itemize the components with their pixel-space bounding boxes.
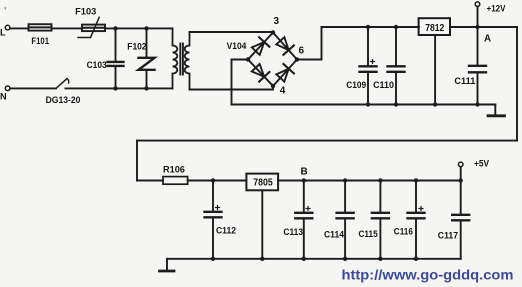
svg-text:V104: V104	[227, 41, 247, 52]
svg-text:R106: R106	[163, 165, 185, 175]
wire feed left vertical	[136, 141, 138, 181]
node junction C112 top	[211, 178, 215, 182]
svg-text:C116: C116	[394, 226, 413, 236]
capacitor C116	[408, 181, 425, 259]
node junction 7805 gnd bottom	[260, 257, 264, 261]
svg-text:C103: C103	[87, 60, 107, 70]
bridge left node dot	[246, 57, 250, 61]
wire 7805 output rail	[278, 180, 461, 182]
svg-text:C115: C115	[359, 229, 378, 239]
wire to R106	[137, 180, 163, 182]
ground stage2	[160, 259, 175, 271]
svg-text:C111: C111	[454, 76, 475, 86]
wire F101 to F103	[52, 27, 83, 29]
wire +12V feed to second stage	[137, 140, 517, 142]
diode D-topright of V104	[275, 36, 294, 55]
diode D-bottomright of V104	[275, 64, 294, 83]
node junction C111 bottom	[475, 102, 479, 106]
node junction C114 bottom	[343, 257, 347, 261]
svg-text:3: 3	[274, 16, 280, 27]
7812 ground pin wire	[434, 35, 436, 105]
wire 7812 output to +12V node	[450, 26, 517, 28]
regulator U1 7812	[419, 18, 450, 35]
regulator U2 7805	[246, 174, 278, 191]
node junction C110 top	[394, 25, 398, 29]
svg-text:C113: C113	[283, 227, 303, 237]
capacitor C110	[388, 27, 405, 105]
terminal L	[5, 25, 10, 30]
svg-text:N: N	[0, 92, 7, 102]
node junction C109 bottom	[366, 102, 370, 106]
capacitor C109	[360, 27, 377, 105]
node junction C103 top	[113, 26, 117, 30]
wire stage2 bottom rail	[167, 258, 461, 260]
wire DC top rail to 7812 input	[322, 26, 420, 28]
wire secondary top to bridge node 3	[190, 31, 274, 33]
transformer T1 secondary winding	[185, 32, 190, 90]
wire DC bottom rail	[232, 104, 496, 106]
wire switch to transformer primary bottom	[66, 87, 173, 89]
thermal fuse F103	[78, 17, 105, 37]
wire N to switch	[11, 87, 57, 89]
node junction C112 bottom	[211, 257, 215, 261]
svg-text:DG13-20: DG13-20	[46, 95, 81, 105]
node junction C113 top	[302, 178, 306, 182]
svg-text:A: A	[484, 33, 491, 44]
svg-text:7812: 7812	[425, 22, 444, 34]
terminal +5V	[458, 162, 463, 167]
svg-text:B: B	[301, 167, 308, 178]
svg-text:C117: C117	[438, 231, 458, 241]
wire node 6 to DC top rail	[297, 27, 322, 60]
svg-text:F101: F101	[31, 36, 49, 46]
node junction C109 top	[366, 25, 370, 29]
transformer T1 primary winding	[173, 28, 178, 88]
node junction F102 top	[144, 26, 148, 30]
svg-text:F103: F103	[75, 6, 96, 16]
node 4 dot	[271, 84, 275, 88]
node junction 7812 gnd	[433, 102, 437, 106]
capacitor C111	[469, 27, 486, 105]
node junction C116 top	[414, 178, 418, 182]
svg-text:http://www.go-gddq.com: http://www.go-gddq.com	[342, 267, 514, 282]
capacitor C117	[452, 181, 469, 259]
svg-text:+12V: +12V	[487, 4, 506, 15]
varistor F102	[139, 28, 155, 88]
wire L to F101	[11, 27, 29, 29]
svg-text:7805: 7805	[253, 177, 273, 189]
node junction C115 bottom	[378, 257, 382, 261]
svg-text:C114: C114	[324, 230, 345, 240]
svg-text:4: 4	[280, 86, 286, 97]
capacitor C113	[295, 181, 312, 259]
capacitor C103	[108, 28, 124, 88]
node 6 dot	[295, 57, 299, 61]
node junction C115 top	[378, 178, 382, 182]
wire +5V terminal stub	[460, 167, 462, 181]
wire +12V feed right vertical	[516, 27, 518, 141]
ground stage1	[488, 105, 505, 116]
wire bridge negative drop	[232, 60, 249, 105]
diode D-topleft of V104	[251, 37, 270, 56]
node junction C113 bottom	[302, 257, 306, 261]
bridge rectifier V104	[248, 33, 297, 87]
7805 ground pin wire	[261, 190, 263, 258]
wire +12V terminal stub	[477, 7, 479, 28]
node junction C114 top	[343, 178, 347, 182]
resistor R106	[163, 177, 188, 185]
switch DG13-20	[56, 79, 69, 89]
wire F103 to transformer primary top	[105, 27, 173, 29]
svg-text:F102: F102	[127, 42, 146, 52]
svg-text:6: 6	[299, 46, 305, 57]
node junction C116 bottom	[414, 257, 418, 261]
terminal +12V	[475, 2, 480, 7]
svg-text:C110: C110	[373, 80, 394, 90]
terminal N	[5, 86, 10, 91]
fuse F101	[29, 24, 52, 30]
svg-text:C109: C109	[346, 80, 366, 90]
node junction F102 bottom	[144, 86, 148, 90]
capacitor C115	[372, 181, 389, 259]
wire secondary bottom to bridge node 4	[190, 86, 274, 90]
speck	[5, 7, 6, 10]
node junction C110 bottom	[394, 102, 398, 106]
svg-text:L: L	[0, 28, 6, 38]
node junction C117 top	[459, 178, 463, 182]
svg-text:C112: C112	[216, 226, 236, 236]
node junction C103 bottom	[113, 86, 117, 90]
capacitor C112	[205, 181, 222, 259]
capacitor C114	[337, 181, 354, 259]
diode D-bottomleft of V104	[251, 63, 270, 82]
node 3 dot	[271, 30, 275, 34]
svg-text:+5V: +5V	[474, 158, 490, 169]
node A junction	[475, 25, 479, 29]
wire R106 to 7805	[188, 180, 247, 182]
transformer T1 core	[180, 44, 183, 75]
